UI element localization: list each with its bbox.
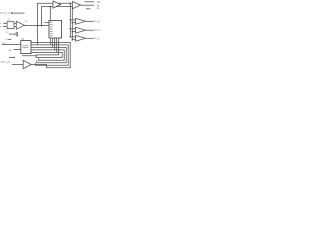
U1 pin stub xyxy=(45,21,49,23)
wire box to op-amp lower xyxy=(14,25,16,27)
pin E1 stub xyxy=(3,22,7,24)
capacitor C1 plate 2 xyxy=(17,32,19,37)
wire C1 xyxy=(9,33,16,35)
svg-text:P1.0: P1.0 xyxy=(95,19,101,23)
wire vertical A xyxy=(38,3,73,45)
wire stub lower-left xyxy=(9,57,14,59)
U1 bottom pin wire 2 xyxy=(52,38,54,47)
wire EA stub xyxy=(14,49,21,51)
pin E2 stub xyxy=(3,25,7,27)
svg-text:P1.1: P1.1 xyxy=(95,28,101,32)
capacitor C1 plate 1 xyxy=(15,32,17,37)
svg-text:U2: U2 xyxy=(25,21,29,23)
IC U3 xyxy=(21,41,31,54)
svg-text:P1.0_X: P1.0_X xyxy=(0,11,10,15)
junction dot xyxy=(70,28,72,30)
wire tap B3- xyxy=(72,39,75,41)
wire B3 out xyxy=(86,37,94,39)
U1 pin labels xyxy=(50,22,53,37)
junction dot xyxy=(37,25,39,27)
wire U2 output to U1 xyxy=(24,25,49,27)
wire A2 output xyxy=(81,4,95,6)
svg-text:EA: EA xyxy=(9,49,12,52)
junction dot xyxy=(72,39,74,41)
bus line L6 xyxy=(22,54,59,57)
junction dot xyxy=(70,3,72,5)
bus loop L3 xyxy=(31,47,66,62)
U1 bottom pin wire 3 xyxy=(54,38,56,50)
wire xyxy=(13,12,25,14)
wire stub upper xyxy=(85,1,95,3)
buffer A2 xyxy=(73,2,81,9)
IC U1 xyxy=(49,20,62,38)
bus loop L1 xyxy=(31,42,70,67)
wire C2 xyxy=(8,39,12,41)
svg-text:E: E xyxy=(0,23,2,25)
buffer A1 xyxy=(53,1,61,8)
op-amp B1 xyxy=(76,18,86,24)
wire RST xyxy=(2,43,21,45)
wire vertical B xyxy=(42,7,73,26)
wire B2 out xyxy=(86,29,94,31)
svg-text:X1: X1 xyxy=(7,20,11,22)
bus loop L5 xyxy=(31,52,62,57)
wire tap B1+ xyxy=(70,19,75,21)
U3 inner text xyxy=(23,45,29,48)
svg-text:2p: 2p xyxy=(97,7,100,10)
wire buffer output xyxy=(31,64,46,66)
op-amp B2 xyxy=(76,27,86,33)
U1 bottom pin wire 4 xyxy=(56,38,58,52)
wire tap B3+ xyxy=(70,36,75,38)
svg-text:C1: C1 xyxy=(6,32,9,34)
junction dot xyxy=(72,22,74,24)
junction dot xyxy=(70,19,72,21)
junction dot xyxy=(70,36,72,38)
op-amp U2 xyxy=(16,21,24,29)
wire tap B2- xyxy=(72,31,75,33)
svg-text:P3.7_IN: P3.7_IN xyxy=(1,61,10,64)
wire buffer input xyxy=(12,63,23,65)
junction dot xyxy=(11,12,13,14)
wire B1 out xyxy=(86,20,94,22)
bus loop L2 xyxy=(31,45,68,65)
bus loop L4 xyxy=(31,50,64,60)
wire box to op-amp upper xyxy=(14,22,16,24)
component box X1 xyxy=(7,22,14,29)
svg-text:E: E xyxy=(0,26,2,28)
op-amp B3 xyxy=(76,35,86,41)
buffer B4 xyxy=(23,60,31,68)
wire stub lower xyxy=(86,8,91,10)
U1 bottom pin wire 1 xyxy=(50,38,52,45)
junction dot xyxy=(41,25,43,27)
svg-text:P1.2: P1.2 xyxy=(95,36,101,40)
junction dot xyxy=(72,31,74,33)
U1 bottom pin wire 5 xyxy=(58,38,60,55)
wire bus rail A drop xyxy=(69,3,71,37)
wire drop to U1 top xyxy=(49,7,51,21)
wire bus rail B drop xyxy=(71,7,73,40)
wire tap B2+ xyxy=(70,28,75,30)
wire tap B1- xyxy=(72,22,75,24)
junction dot xyxy=(50,6,52,8)
junction dot xyxy=(14,57,15,58)
